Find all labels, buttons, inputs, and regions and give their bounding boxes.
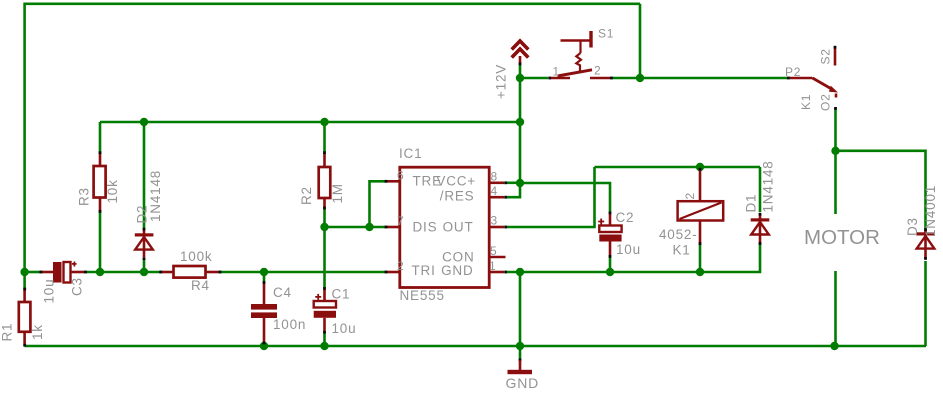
wire R3 bottom to node [99, 213, 102, 273]
actuator plunger [589, 31, 592, 48]
svg-text:/RES: /RES [440, 188, 475, 203]
pushbutton S1 [548, 27, 614, 80]
diode D1 1N4148 [744, 160, 776, 244]
svg-text:1: 1 [553, 65, 560, 79]
wire motor node to D3 top [836, 151, 926, 229]
svg-text:K1: K1 [673, 243, 691, 258]
junction C1 on bus [320, 342, 328, 350]
wire right drop from top rail to S1 output node [639, 4, 642, 78]
capacitor C3 [40, 262, 87, 304]
wire GND riser from pin1 node to bus [519, 272, 522, 346]
junction C2 bottom node [606, 268, 614, 276]
svg-text:C2: C2 [616, 210, 635, 225]
wire 555 pin4 loop to +12V node [507, 183, 520, 197]
wire relay coil bottom [699, 245, 702, 272]
svg-text:GND: GND [506, 375, 540, 391]
op-amp timer IC1 NE555 [385, 146, 507, 303]
svg-text:VCC+: VCC+ [436, 173, 476, 188]
pin 7 stub [387, 226, 400, 229]
diode D3 1N4001 [905, 185, 938, 260]
wire 555 pin3 OUT riser to relay net [507, 167, 595, 227]
wire gnd row to D1 bottom [700, 243, 760, 273]
svg-text:10u: 10u [42, 279, 57, 304]
svg-text:2: 2 [594, 64, 601, 78]
wire DIS node down to C1 [323, 227, 326, 288]
svg-text:R3: R3 [77, 187, 92, 206]
wire node A horizontal y=272 left part [25, 271, 41, 274]
svg-text:10u: 10u [616, 242, 641, 257]
svg-text:NE555: NE555 [400, 288, 445, 303]
junction pin6/pin7 tie [365, 223, 373, 231]
svg-text:IC1: IC1 [399, 146, 422, 161]
svg-text:R2: R2 [299, 186, 314, 205]
pin 5 stub [489, 256, 506, 259]
svg-text:10u: 10u [332, 321, 357, 336]
diode D2 1N4148 [135, 170, 164, 260]
svg-text:S2: S2 [819, 48, 833, 64]
svg-text:4052-: 4052- [659, 227, 698, 242]
S2 fixed contact stub [834, 48, 837, 66]
svg-text:DIS: DIS [413, 219, 438, 234]
pin connection ticks [385, 180, 388, 183]
wire +12V vertical riser [519, 65, 522, 183]
svg-text:2: 2 [683, 192, 697, 199]
wire D3 bottom to bus corner [924, 261, 927, 346]
capacitor C2 [598, 210, 641, 258]
svg-text:C3: C3 [70, 277, 85, 296]
svg-text:K1: K1 [799, 94, 813, 110]
svg-text:1N4148: 1N4148 [761, 160, 776, 212]
junction D2 bottom node [140, 268, 148, 276]
svg-text:7: 7 [397, 214, 404, 228]
svg-text:C4: C4 [273, 285, 292, 300]
svg-text:1N4148: 1N4148 [148, 170, 163, 222]
resistor R2 [299, 151, 345, 209]
junction R2 top on rail [320, 118, 328, 126]
junction C4 on bus [260, 342, 268, 350]
wire C3 right to R4 left [86, 271, 161, 274]
wire R1 top [23, 272, 26, 289]
pin 8 stub [489, 182, 504, 185]
pin 6 stub [387, 180, 400, 183]
junction pin1 gnd node [516, 268, 524, 276]
wire motor bottom lead to bus [834, 271, 837, 346]
junction relay coil top node [696, 163, 704, 171]
supply symbol +12V [494, 41, 529, 99]
wire C4 bottom [263, 343, 266, 346]
svg-text:1: 1 [489, 259, 496, 273]
svg-text:2: 2 [397, 259, 404, 273]
svg-text:4: 4 [491, 184, 498, 198]
wire +12V node to C2 top [520, 183, 610, 212]
svg-text:1M: 1M [330, 183, 345, 203]
junction GND on bus [516, 342, 524, 350]
wire GND symbol stub top [519, 346, 522, 359]
junction node +12V/S1 [516, 74, 524, 82]
wire branch to 555 pin6 [370, 181, 387, 227]
resistor R3 [77, 151, 121, 213]
pin 2 stub [387, 271, 400, 274]
svg-text:8: 8 [491, 170, 498, 184]
svg-text:R1: R1 [0, 323, 15, 342]
ground bus bottom [25, 345, 926, 348]
capacitor C4 [251, 281, 306, 344]
junction motor on bus [830, 342, 838, 350]
relay coil K1 4052 [659, 168, 723, 258]
svg-text:C1: C1 [332, 287, 351, 302]
svg-text:R4: R4 [191, 278, 210, 293]
junction D2 top on rail [140, 118, 148, 126]
wire R2 top riser [323, 122, 326, 152]
resistor R1 [0, 288, 45, 347]
svg-text:D3: D3 [905, 217, 920, 236]
svg-text:10k: 10k [105, 179, 120, 203]
movable arm with arrow [813, 78, 833, 90]
wire top-left rail from +12V net down left side [25, 4, 640, 272]
svg-text:1N4001: 1N4001 [923, 185, 938, 237]
ground symbol GND [506, 359, 540, 392]
svg-text:OUT: OUT [443, 219, 474, 234]
O2 contact stub [835, 94, 838, 98]
wire C1 bottom to ground bus [323, 333, 326, 347]
svg-text:6: 6 [397, 168, 404, 182]
junction DIS node at R2 [320, 223, 328, 231]
junction motor / D3 branch [831, 147, 839, 155]
svg-text:+12V: +12V [494, 64, 509, 99]
wire 555 pin1 GND row [507, 271, 700, 274]
wire C4 top [263, 272, 266, 281]
svg-text:3: 3 [491, 214, 498, 228]
pin 4 stub [489, 196, 504, 199]
svg-text:S1: S1 [598, 27, 614, 41]
capacitor C1 [314, 287, 357, 337]
junction left rail / C3 / R1 [20, 268, 28, 276]
wire D2 top riser [143, 122, 146, 229]
junction S1 out / top rail [636, 74, 644, 82]
relay contact K1 P2/S2/O2 [785, 46, 838, 111]
svg-text:1k: 1k [30, 324, 45, 340]
wire DIS row to 555 pin7 [325, 226, 387, 229]
wire 555 pin8 to +12V node [507, 182, 520, 185]
wire D1 top drop [759, 167, 762, 212]
junction pin8 +12V [516, 179, 524, 187]
pin 1 stub [489, 271, 504, 274]
wire R4 right to 555 TRI pin 2 [220, 271, 387, 274]
svg-text:D1: D1 [744, 194, 759, 213]
wire D2 bottom [143, 260, 146, 272]
junction R3 bottom node [96, 268, 104, 276]
wire S1 pin2 to relay contact P2 [613, 77, 789, 80]
svg-text:100n: 100n [273, 317, 306, 332]
wire R3 top riser [99, 122, 102, 152]
svg-text:100k: 100k [180, 249, 212, 264]
svg-text:TRI: TRI [412, 263, 436, 278]
wire O2 contact down to motor node [834, 110, 837, 215]
pin 3 stub [489, 226, 504, 229]
wire horizontal rail y=122 [100, 121, 520, 124]
junction rail / +12V riser [516, 118, 524, 126]
resistor R4 [159, 249, 221, 293]
svg-text:P2: P2 [785, 65, 801, 79]
wire relay top rail y=167 [595, 166, 761, 169]
junction C4 top node [260, 268, 268, 276]
wire +12V to S1 pin1 [520, 77, 548, 80]
svg-text:O2: O2 [819, 93, 833, 111]
wire C2 bottom to gnd row [609, 258, 612, 273]
junction relay coil bottom node [696, 268, 704, 276]
svg-text:5: 5 [490, 244, 497, 258]
svg-text:MOTOR: MOTOR [804, 226, 880, 249]
wire R2 bottom to DIS node [323, 209, 326, 228]
svg-text:GND: GND [441, 263, 473, 278]
